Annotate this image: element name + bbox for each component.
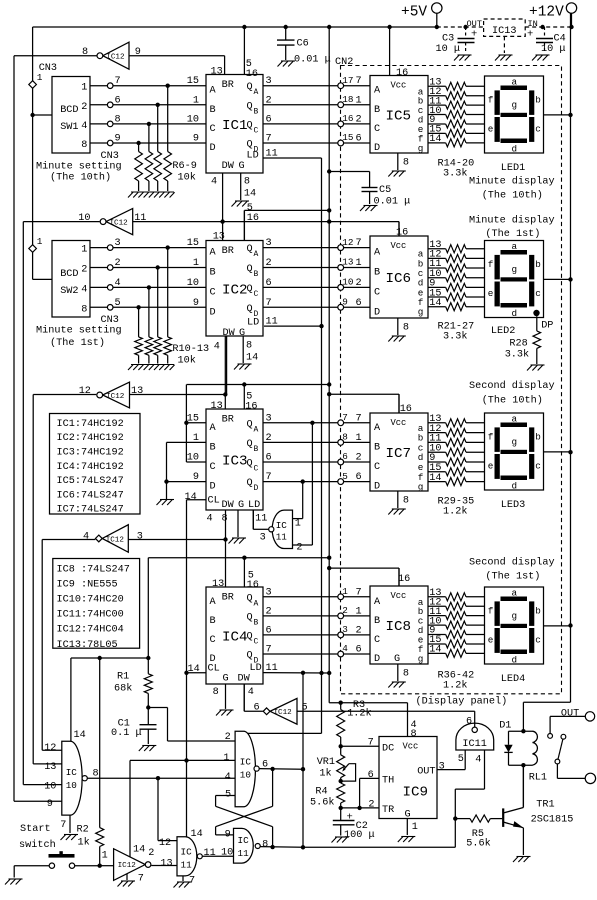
wire +5V vertical rail <box>327 27 331 703</box>
wire +5V branch to IC10 and R2 <box>71 656 148 742</box>
svg-text:Start: Start <box>20 824 51 835</box>
svg-text:1: 1 <box>356 95 362 106</box>
svg-text:4: 4 <box>342 643 348 654</box>
svg-text:CN3: CN3 <box>101 315 119 326</box>
svg-text:Minute display: Minute display <box>469 176 555 188</box>
timer IC9 NE555 <box>379 737 437 821</box>
resistor R5 <box>455 815 502 850</box>
svg-text:2: 2 <box>296 543 302 554</box>
svg-text:CN3: CN3 <box>101 151 119 162</box>
svg-text:6: 6 <box>115 95 121 106</box>
wire LD chain <box>248 158 324 733</box>
svg-text:Q: Q <box>247 439 253 450</box>
svg-text:13: 13 <box>213 232 225 243</box>
svg-text:A: A <box>374 423 381 434</box>
svg-text:8: 8 <box>244 177 250 188</box>
wire LED1 common <box>544 114 571 116</box>
display LED3 seven segment <box>485 413 544 492</box>
label LED1 <box>501 163 525 174</box>
resistor R3 <box>337 700 372 746</box>
wire IC9 TH TR <box>341 770 379 811</box>
node CN3 pin 1 band2 <box>29 236 43 252</box>
svg-text:BR: BR <box>222 246 234 257</box>
svg-text:13: 13 <box>160 859 172 870</box>
svg-text:C: C <box>374 462 380 473</box>
svg-text:1k: 1k <box>78 837 90 849</box>
decoder IC8 74LS247 <box>370 586 428 665</box>
svg-text:TR1: TR1 <box>536 800 554 811</box>
svg-text:B: B <box>374 105 380 116</box>
svg-text:10 μ: 10 μ <box>541 44 565 55</box>
svg-text:(The 1st): (The 1st) <box>50 337 105 349</box>
svg-text:d: d <box>512 144 518 155</box>
wire IC10 gate2 output <box>259 767 303 771</box>
svg-text:CL: CL <box>208 496 220 507</box>
svg-text:IC9: IC9 <box>403 785 429 801</box>
svg-text:OUT: OUT <box>561 709 579 720</box>
svg-text:16: 16 <box>245 402 257 413</box>
svg-text:TH: TH <box>382 776 394 787</box>
svg-text:Vcc: Vcc <box>391 418 407 428</box>
wire feedback rail C <box>33 395 62 764</box>
svg-text:g: g <box>512 437 518 448</box>
switch start pushbutton <box>14 851 113 877</box>
decoder IC6 74LS247 <box>370 236 428 318</box>
svg-text:BR: BR <box>222 415 234 426</box>
svg-text:b: b <box>535 259 541 270</box>
pin IC10 gate1 inputs <box>44 743 56 810</box>
svg-text:16: 16 <box>246 69 258 80</box>
svg-text:6: 6 <box>356 134 362 145</box>
svg-text:8: 8 <box>81 140 87 151</box>
wire IC2 LD <box>264 325 322 327</box>
svg-text:e: e <box>488 460 494 471</box>
diode D1 <box>499 721 513 766</box>
svg-text:18: 18 <box>342 94 353 105</box>
svg-text:TR: TR <box>382 805 394 816</box>
wire reset node to gate <box>148 708 235 742</box>
svg-text:Minute setting: Minute setting <box>36 325 122 337</box>
svg-text:IC10:74HC20: IC10:74HC20 <box>57 595 124 606</box>
svg-text:1: 1 <box>356 433 362 444</box>
svg-text:7: 7 <box>189 876 195 887</box>
pin IC11 gate6 14 <box>191 829 203 840</box>
wire IC11 gate1 input2 <box>293 421 315 554</box>
svg-text:a: a <box>512 77 518 88</box>
svg-text:C: C <box>374 287 380 298</box>
svg-text:g: g <box>418 307 424 318</box>
svg-text:IC8: IC8 <box>386 619 412 635</box>
svg-text:IC6:74LS247: IC6:74LS247 <box>57 490 124 501</box>
terminal OUT upper <box>550 709 595 734</box>
svg-text:Q: Q <box>247 631 253 642</box>
pin IC3 8 ground <box>222 510 247 544</box>
svg-text:Q: Q <box>247 612 253 623</box>
svg-text:1: 1 <box>342 586 348 597</box>
pin IC2 5 16 <box>244 203 259 241</box>
svg-text:7: 7 <box>368 738 374 749</box>
svg-text:g: g <box>512 264 518 275</box>
svg-text:IC: IC <box>276 520 288 531</box>
svg-text:R4: R4 <box>315 787 327 798</box>
svg-text:Vcc: Vcc <box>403 742 419 752</box>
pin IC2 input numbers <box>187 238 199 309</box>
svg-text:LED3: LED3 <box>501 500 525 511</box>
capacitor C3 <box>436 27 478 55</box>
wire SW2 common <box>33 278 52 280</box>
power +12V terminal <box>529 3 577 27</box>
svg-text:1: 1 <box>295 519 301 530</box>
inverter IC12 gate5 <box>244 684 475 724</box>
svg-text:Q: Q <box>247 120 253 131</box>
svg-text:Q: Q <box>247 284 253 295</box>
ground C6 <box>278 61 296 67</box>
wire IC3 preset BD ground <box>164 442 206 499</box>
svg-text:(Display panel): (Display panel) <box>416 696 508 708</box>
wire SW1 outputs <box>90 76 206 146</box>
wire IC4 outputs to CN2 <box>263 597 370 654</box>
svg-text:C: C <box>254 465 259 474</box>
svg-text:DC: DC <box>382 744 394 755</box>
svg-text:R28: R28 <box>509 339 527 350</box>
svg-text:DP: DP <box>541 321 553 332</box>
svg-text:3: 3 <box>342 624 348 635</box>
display LED4 seven segment <box>485 587 544 666</box>
wire IC9 DC <box>339 738 380 749</box>
svg-text:D: D <box>254 484 259 493</box>
svg-text:D: D <box>374 307 380 318</box>
svg-text:4: 4 <box>207 514 213 525</box>
svg-text:d: d <box>512 655 518 666</box>
table IC list 2 <box>53 559 140 651</box>
svg-text:Vcc: Vcc <box>391 81 407 91</box>
svg-text:IC12: IC12 <box>106 536 125 544</box>
svg-text:+5V: +5V <box>401 5 427 21</box>
svg-text:b: b <box>535 95 541 106</box>
svg-text:LED1: LED1 <box>501 163 525 174</box>
svg-text:14: 14 <box>74 730 86 741</box>
svg-text:f: f <box>488 95 494 106</box>
switch relay contacts <box>548 734 586 779</box>
svg-text:10: 10 <box>78 213 90 224</box>
svg-text:2: 2 <box>148 848 154 859</box>
svg-text:8: 8 <box>222 514 228 525</box>
svg-text:Q: Q <box>247 478 253 489</box>
label CN3 band1 bottom <box>101 151 119 162</box>
wire LED2 common <box>544 278 571 280</box>
svg-text:12: 12 <box>44 743 56 754</box>
capacitor C1 <box>111 708 157 745</box>
svg-text:B: B <box>374 268 380 279</box>
svg-text:BCD: BCD <box>60 105 78 116</box>
wire +12V rail right side <box>523 13 572 731</box>
svg-text:5: 5 <box>458 754 464 765</box>
svg-text:8: 8 <box>82 47 88 58</box>
svg-text:9: 9 <box>342 297 348 308</box>
svg-text:B: B <box>210 268 216 279</box>
svg-text:13: 13 <box>211 401 223 412</box>
svg-text:Q: Q <box>247 459 253 470</box>
inverter IC12 gate2 <box>23 209 222 235</box>
pin IC5 8 ground <box>388 153 409 177</box>
svg-text:Minute display: Minute display <box>469 215 555 227</box>
node CN2 connectors band3 <box>338 412 362 485</box>
label LED3 <box>501 500 525 511</box>
svg-text:C: C <box>210 287 216 298</box>
label LED2 <box>491 326 515 337</box>
svg-text:8: 8 <box>403 158 409 169</box>
svg-text:A: A <box>374 248 381 259</box>
svg-text:Q: Q <box>247 244 253 255</box>
regulator IC13 <box>484 19 526 53</box>
wire IC3 preset AC high <box>184 385 206 463</box>
svg-text:5.6k: 5.6k <box>466 838 490 850</box>
svg-text:A: A <box>374 597 381 608</box>
svg-text:10: 10 <box>66 780 77 791</box>
svg-text:9: 9 <box>47 799 53 810</box>
svg-text:10: 10 <box>221 848 233 859</box>
wire IC4 IC8 Vcc feed <box>148 556 399 588</box>
svg-text:16: 16 <box>247 213 259 224</box>
svg-text:B: B <box>254 107 259 116</box>
svg-text:IC7:74LS247: IC7:74LS247 <box>57 505 124 516</box>
wire +12V dashed link <box>437 19 574 29</box>
connector CN2 display panel dashed box <box>335 57 562 694</box>
pin IC8 8 ground <box>388 664 409 688</box>
svg-text:OUT: OUT <box>417 767 435 778</box>
svg-text:DW: DW <box>223 328 236 339</box>
pin IC1 output numbers <box>266 76 278 159</box>
svg-text:1.2k: 1.2k <box>443 506 467 518</box>
svg-text:10: 10 <box>342 277 353 288</box>
transistor TR1 2SC1815 <box>503 765 573 855</box>
wire IC1 outputs to CN2 <box>263 86 370 143</box>
svg-text:Second display: Second display <box>469 380 555 392</box>
display LED2 seven segment <box>485 241 544 320</box>
pin IC5 16 Vcc <box>390 27 409 79</box>
svg-text:10 μ: 10 μ <box>436 44 460 55</box>
resistor R28 <box>505 316 541 364</box>
pin IC4 4 DW <box>244 684 254 711</box>
svg-text:IC6: IC6 <box>386 271 412 287</box>
svg-text:Q: Q <box>247 101 253 112</box>
decoder IC5 74LS247 <box>370 76 428 155</box>
svg-text:B: B <box>254 445 259 454</box>
label LED4 <box>501 674 525 685</box>
counter IC3 74HC192 <box>206 409 263 511</box>
svg-text:B: B <box>210 105 216 116</box>
svg-text:IC3:74HC192: IC3:74HC192 <box>57 448 124 459</box>
svg-text:A: A <box>210 423 217 434</box>
svg-text:1: 1 <box>356 258 362 269</box>
nand IC11 gate5 <box>225 828 269 863</box>
svg-text:(The 10th): (The 10th) <box>482 190 543 202</box>
svg-text:a: a <box>512 588 518 599</box>
wire latch drop to IC11 gate3 input <box>158 778 177 840</box>
pin IC4 5 16 <box>247 571 259 592</box>
svg-text:4: 4 <box>248 687 254 698</box>
pin IC3 input numbers <box>187 413 199 483</box>
svg-text:IC5: IC5 <box>386 108 412 124</box>
svg-text:1: 1 <box>81 83 87 94</box>
svg-text:IC: IC <box>66 767 78 778</box>
svg-text:BCD: BCD <box>60 269 78 280</box>
svg-text:10: 10 <box>240 770 251 781</box>
svg-text:B: B <box>374 616 380 627</box>
svg-text:A: A <box>210 597 217 608</box>
svg-text:c: c <box>535 288 541 299</box>
pin IC7 16 Vcc <box>399 394 412 415</box>
svg-text:16: 16 <box>396 228 408 239</box>
svg-text:B: B <box>210 442 216 453</box>
svg-text:A: A <box>254 250 259 259</box>
svg-text:2: 2 <box>81 265 87 276</box>
svg-text:A: A <box>254 88 259 97</box>
node CN2 connectors band2 <box>338 237 362 310</box>
svg-text:4: 4 <box>211 177 217 188</box>
wire feedback rail A <box>14 56 62 802</box>
svg-text:7: 7 <box>115 76 121 87</box>
switch SW2 BCD <box>52 241 90 318</box>
svg-text:5.6k: 5.6k <box>310 797 334 809</box>
svg-text:IC2: IC2 <box>222 282 248 298</box>
pin IC3 13 <box>211 401 223 412</box>
svg-text:10k: 10k <box>178 355 196 367</box>
svg-text:IC13:78L05: IC13:78L05 <box>57 640 118 651</box>
svg-text:Q: Q <box>247 304 253 315</box>
svg-text:IC: IC <box>238 835 250 846</box>
svg-text:Q: Q <box>247 593 253 604</box>
resistor R2 <box>77 658 104 868</box>
svg-text:13: 13 <box>212 579 224 590</box>
svg-text:2: 2 <box>356 625 362 636</box>
svg-text:2: 2 <box>225 732 231 743</box>
svg-text:LD: LD <box>247 318 259 329</box>
svg-text:G: G <box>223 674 229 685</box>
svg-text:11: 11 <box>255 514 267 525</box>
svg-text:2SC1815: 2SC1815 <box>531 815 574 826</box>
resistor network R21-27 <box>428 240 485 343</box>
svg-text:f: f <box>488 606 494 617</box>
svg-text:C: C <box>254 637 259 646</box>
wire left +5V rail to BCD switches <box>30 27 34 279</box>
svg-text:14: 14 <box>429 473 441 484</box>
pin IC6 8 ground <box>388 318 409 342</box>
svg-text:OUT: OUT <box>467 19 482 29</box>
svg-text:1: 1 <box>412 822 418 833</box>
capacitor C4 <box>527 27 566 55</box>
svg-text:a: a <box>512 241 518 252</box>
resistor network R36-42 <box>428 588 485 692</box>
svg-text:3: 3 <box>137 532 143 543</box>
nand IC11 gate6 <box>151 837 202 876</box>
pin IC4 13 <box>212 579 224 590</box>
label start switch <box>19 824 56 851</box>
svg-text:g: g <box>512 611 518 622</box>
svg-text:4: 4 <box>475 755 481 766</box>
svg-text:IC4:74HC192: IC4:74HC192 <box>57 462 124 473</box>
pin IC2 output numbers <box>266 238 278 327</box>
label display panel <box>416 696 508 708</box>
svg-text:8: 8 <box>93 769 99 780</box>
wire SW2 outputs <box>90 238 206 310</box>
svg-text:16: 16 <box>400 404 412 415</box>
node CN3 pin 1 band1 <box>29 72 43 88</box>
svg-text:IC5:74LS247: IC5:74LS247 <box>57 476 124 487</box>
svg-text:A: A <box>210 248 217 259</box>
svg-text:9: 9 <box>115 134 121 145</box>
ground C1 <box>139 746 157 752</box>
svg-text:IC: IC <box>181 847 193 858</box>
wire cascade band3 <box>223 336 227 409</box>
wire IC11 gate6 output <box>202 848 233 860</box>
svg-text:g: g <box>418 143 424 154</box>
pin IC11 gate6 7 ground <box>174 876 196 888</box>
resistor network R10-13 <box>135 245 209 366</box>
svg-text:2: 2 <box>342 605 348 616</box>
svg-text:DW: DW <box>222 161 235 172</box>
ground C5 <box>360 206 378 212</box>
svg-text:(The 10th): (The 10th) <box>50 172 111 184</box>
svg-text:1: 1 <box>81 245 87 256</box>
svg-text:IC13: IC13 <box>492 26 516 37</box>
svg-text:1: 1 <box>37 236 43 247</box>
svg-text:g: g <box>418 653 424 664</box>
counter IC1 74HC192 <box>206 75 263 174</box>
svg-text:d: d <box>512 308 518 319</box>
inverter IC12 gate3 <box>33 382 225 408</box>
wire IC3 outputs to CN2 <box>263 423 370 482</box>
svg-text:D: D <box>374 482 380 493</box>
svg-text:1.2k: 1.2k <box>443 680 467 692</box>
wire IC11 gate3 input4 <box>453 750 484 847</box>
svg-text:4: 4 <box>214 342 220 353</box>
pin IC8 16 Vcc <box>398 568 410 586</box>
svg-text:6: 6 <box>356 472 362 483</box>
wire SW1 common <box>33 114 52 116</box>
node CN2 connectors band1 <box>338 75 362 146</box>
svg-text:12: 12 <box>342 237 353 248</box>
svg-text:3: 3 <box>439 762 445 773</box>
svg-text:8: 8 <box>403 323 409 334</box>
counter IC2 74HC192 <box>206 241 263 340</box>
svg-text:8: 8 <box>403 496 409 507</box>
svg-text:4: 4 <box>115 278 121 289</box>
svg-text:3.3k: 3.3k <box>443 331 467 343</box>
node CN2 connectors band4 <box>338 586 362 657</box>
svg-text:7: 7 <box>356 413 362 424</box>
svg-text:11: 11 <box>276 532 288 543</box>
svg-text:B: B <box>254 618 259 627</box>
wire clear line <box>184 500 188 837</box>
svg-text:f: f <box>488 432 494 443</box>
svg-text:8: 8 <box>403 669 409 680</box>
svg-text:IC7: IC7 <box>386 446 412 462</box>
pin IC12 gate6 14 <box>130 760 145 857</box>
svg-text:LED2: LED2 <box>491 326 515 337</box>
svg-text:D: D <box>210 482 216 493</box>
wire load net vertical <box>301 673 305 850</box>
svg-text:switch: switch <box>19 839 56 851</box>
svg-text:C: C <box>254 290 259 299</box>
svg-text:1: 1 <box>223 753 229 764</box>
svg-text:LED4: LED4 <box>501 674 525 685</box>
pin IC3 14 CL <box>185 492 207 503</box>
svg-text:13: 13 <box>342 257 353 268</box>
pin IC1 input numbers <box>187 76 199 144</box>
pin IC10 gate1 7 ground <box>60 815 78 840</box>
svg-text:C: C <box>374 124 380 135</box>
